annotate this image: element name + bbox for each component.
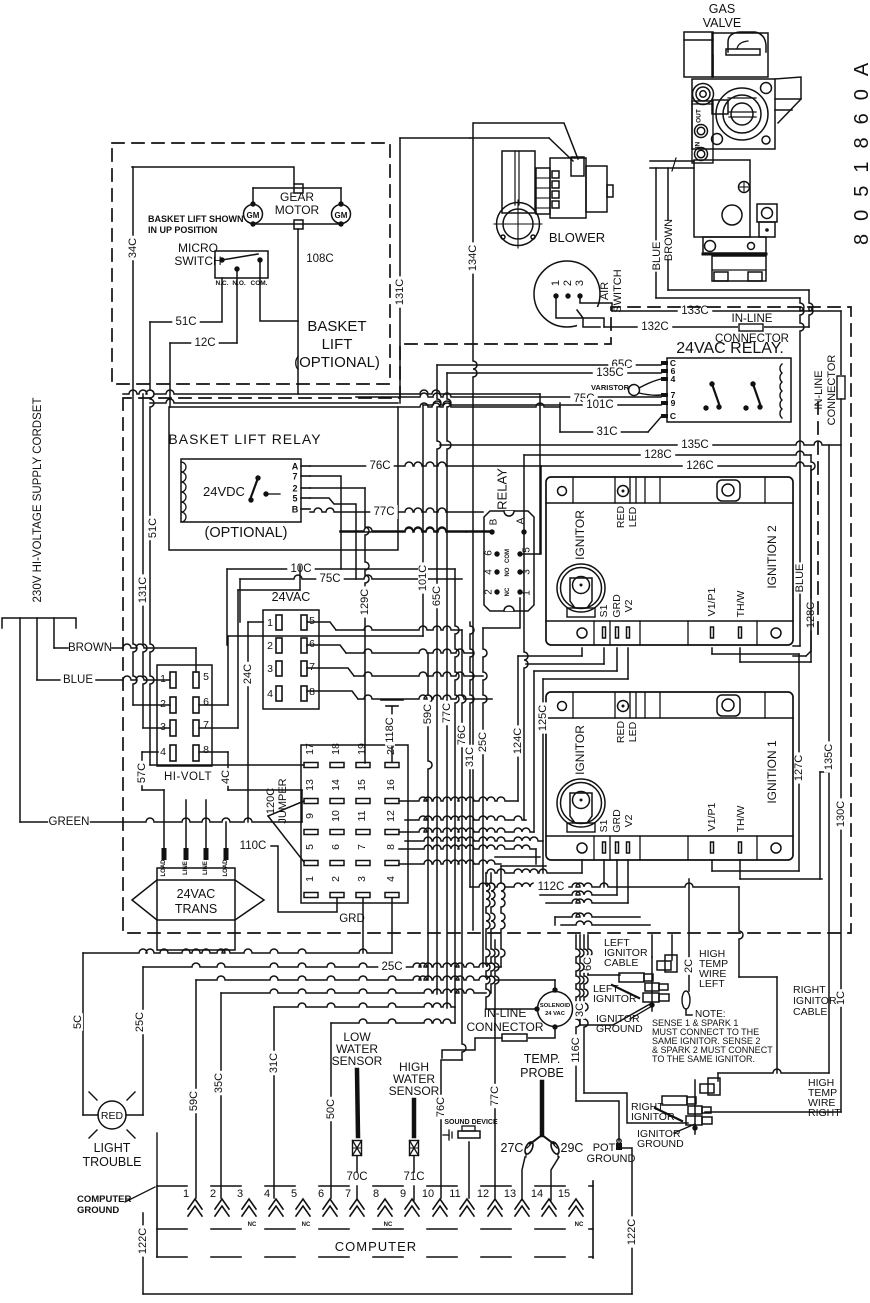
svg-text:7: 7 (345, 1188, 351, 1200)
24VAC transformer pins (162, 848, 167, 860)
wire from 24VAC pin 5 (307, 622, 336, 630)
svg-text:SOUND DEVICE: SOUND DEVICE (444, 1119, 498, 1126)
svg-text:8: 8 (385, 844, 397, 850)
rows to lower left (555, 913, 640, 917)
svg-text:1: 1 (183, 1188, 189, 1200)
svg-text:1: 1 (160, 673, 166, 685)
svg-text:1: 1 (522, 590, 533, 596)
svg-text:5: 5 (203, 671, 209, 683)
svg-text:2: 2 (267, 640, 273, 652)
svg-text:RED: RED (101, 1110, 124, 1122)
svg-text:LED: LED (627, 506, 639, 527)
blower motor (536, 168, 550, 214)
wire 4C from hi-volt pin 8 (199, 751, 228, 753)
svg-text:12: 12 (477, 1188, 489, 1200)
svg-text:CABLE: CABLE (604, 957, 638, 969)
svg-text:LOAD: LOAD (161, 859, 167, 877)
hi-volt connector box (157, 665, 212, 766)
svg-text:130C: 130C (835, 801, 847, 827)
svg-text:51C: 51C (175, 316, 196, 328)
svg-text:18: 18 (330, 743, 342, 755)
svg-text:2C: 2C (683, 959, 695, 973)
24VAC relay box (667, 358, 791, 422)
svg-text:71C: 71C (403, 1171, 424, 1183)
wire 128C drop to ignition 2 TH/W (811, 455, 815, 662)
svg-text:AIR: AIR (599, 282, 611, 300)
20-pin connector box (301, 745, 408, 903)
svg-text:7: 7 (203, 719, 209, 731)
wire 76C to pin 10 (441, 1060, 462, 1198)
svg-text:GAS: GAS (709, 2, 735, 16)
svg-text:8: 8 (309, 686, 315, 698)
svg-text:V1/P1: V1/P1 (706, 588, 718, 617)
gear motor feed wire (132, 167, 294, 184)
wire 135C row (440, 441, 841, 445)
svg-text:IN-LINE: IN-LINE (484, 1006, 527, 1020)
basket lift relay inner box (181, 459, 301, 522)
svg-text:25C: 25C (381, 961, 402, 973)
svg-text:9: 9 (400, 1188, 406, 1200)
svg-text:BLUE: BLUE (63, 674, 93, 686)
svg-text:11: 11 (449, 1188, 460, 1200)
svg-text:NC: NC (505, 587, 511, 596)
wire relay A to 128C (523, 455, 525, 532)
dashed boundary inner right (817, 402, 819, 640)
svg-text:4: 4 (160, 746, 166, 758)
svg-text:4: 4 (484, 569, 495, 575)
svg-text:25C: 25C (477, 732, 489, 752)
wire 134C (473, 123, 477, 930)
left ignitor cable wires (651, 935, 653, 957)
svg-text:IGNITOR: IGNITOR (593, 993, 637, 1005)
svg-text:OUT: OUT (696, 109, 703, 123)
wire 5C label (73, 1013, 83, 1031)
wire 57C from hi-volt pin 4 (142, 751, 158, 753)
svg-text:7: 7 (356, 844, 368, 850)
ignition module IGNITION 2 ignitor (557, 564, 605, 612)
svg-text:135C: 135C (681, 439, 709, 451)
svg-text:2: 2 (562, 280, 574, 286)
svg-text:13: 13 (504, 1188, 516, 1200)
svg-text:TEMP.: TEMP. (524, 1052, 561, 1066)
wire 130C / 1C vertical (840, 399, 842, 1112)
wire from pin 4 (391, 898, 393, 953)
ignition module IGNITION 2 box (546, 477, 793, 645)
wire 31C (bundle) (470, 622, 474, 887)
svg-text:59C: 59C (422, 704, 434, 724)
wires below ignition 1 (581, 860, 583, 873)
svg-text:GROUND: GROUND (587, 1153, 636, 1165)
wire row to relay connector B (340, 527, 492, 531)
svg-text:108C: 108C (306, 253, 334, 265)
ignition module IGNITION 1 top strip (572, 692, 574, 718)
svg-text:S1: S1 (598, 604, 610, 617)
svg-text:4C: 4C (220, 770, 232, 784)
svg-text:24C: 24C (242, 664, 254, 684)
left ignitor assembly (651, 957, 653, 1011)
wire 12C from micro switch NO (236, 271, 238, 343)
svg-text:124C: 124C (512, 728, 524, 754)
svg-text:76C: 76C (369, 460, 390, 472)
svg-text:IGNITOR: IGNITOR (573, 725, 587, 775)
wire relay B row (466, 531, 492, 533)
wire row 31C (274, 1003, 455, 1007)
wires left of ignition boxes (524, 532, 528, 820)
svg-text:3: 3 (574, 280, 586, 286)
24VAC transformer hexagon (132, 880, 264, 920)
svg-text:5: 5 (292, 494, 297, 504)
svg-text:35C: 35C (213, 1073, 225, 1093)
24VAC transformer outer rect (157, 868, 235, 950)
svg-text:GRD: GRD (339, 913, 365, 925)
wire 124C (517, 656, 519, 801)
wire 112C drop (455, 569, 459, 1023)
svg-text:LED: LED (627, 721, 639, 742)
wire 59C (bundle) (428, 653, 432, 980)
svg-text:230V HI-VOLTAGE SUPPLY CORDSET: 230V HI-VOLTAGE SUPPLY CORDSET (32, 398, 44, 603)
svg-text:SENSOR: SENSOR (332, 1054, 383, 1068)
svg-text:B: B (489, 518, 500, 525)
svg-text:V2: V2 (623, 814, 635, 827)
svg-text:77C: 77C (441, 703, 453, 723)
svg-text:3: 3 (267, 663, 273, 675)
wire 25C (bundle) (483, 598, 520, 628)
gas valve side face (775, 77, 801, 99)
svg-text:NC: NC (384, 1222, 393, 1228)
svg-text:14: 14 (330, 779, 342, 791)
gas valve body (684, 32, 713, 77)
svg-text:132C: 132C (641, 321, 669, 333)
svg-text:6: 6 (203, 696, 209, 708)
svg-text:29C: 29C (561, 1141, 584, 1155)
svg-text:S1: S1 (598, 819, 610, 832)
svg-text:8: 8 (373, 1188, 379, 1200)
svg-text:9: 9 (671, 398, 676, 408)
svg-text:RED: RED (615, 505, 627, 528)
wire 128C row (524, 451, 811, 455)
wire from solenoid left (486, 1008, 537, 1010)
wire 112C (470, 883, 739, 887)
wire row 25C (143, 963, 501, 967)
svg-text:(OPTIONAL): (OPTIONAL) (205, 525, 288, 541)
svg-text:GROUND: GROUND (637, 1138, 684, 1150)
svg-text:15: 15 (356, 779, 368, 791)
svg-text:134C: 134C (467, 245, 479, 271)
wires right of 20-pin (399, 797, 518, 801)
svg-text:C: C (670, 411, 676, 421)
svg-text:MOTOR: MOTOR (275, 203, 320, 217)
svg-text:VALVE: VALVE (703, 16, 741, 30)
wire 125C (542, 679, 544, 873)
gas valve face screws (761, 83, 772, 94)
computer box (156, 1186, 158, 1257)
svg-text:GM: GM (335, 211, 348, 220)
svg-text:24 VAC: 24 VAC (545, 1011, 566, 1017)
wire from air switch pin 1 (132C) (556, 296, 604, 327)
svg-text:BLUE: BLUE (651, 242, 663, 271)
blower feed wires (474, 123, 578, 159)
svg-text:BASKET LIFT RELAY: BASKET LIFT RELAY (168, 431, 321, 447)
wire 110C (240, 846, 337, 912)
20-pin connector pins (304, 763, 318, 768)
gas valve lower actuator (694, 160, 750, 237)
wire row 5C (83, 949, 392, 953)
basket lift relay contacts (255, 475, 260, 480)
svg-text:TRANS: TRANS (175, 902, 217, 916)
svg-text:7: 7 (292, 472, 297, 482)
wire BLUE from gas valve (655, 168, 657, 298)
svg-text:NO: NO (505, 567, 511, 576)
svg-text:2: 2 (292, 484, 297, 494)
svg-text:135C: 135C (823, 744, 835, 770)
svg-text:75C: 75C (319, 573, 340, 585)
ignition module IGNITION 2 top strip (572, 477, 574, 503)
wire 6C (588, 935, 592, 975)
svg-text:50C: 50C (325, 1099, 337, 1119)
wire row y407 (398, 403, 560, 407)
right ignitor assembly (694, 1080, 696, 1134)
svg-text:V1/P1: V1/P1 (706, 803, 718, 832)
wire BROWN vertical to 132C (809, 290, 813, 327)
wire from 24VAC pin 7 (307, 668, 354, 676)
svg-text:CONNECTOR: CONNECTOR (466, 1020, 543, 1034)
svg-text:4: 4 (671, 374, 676, 384)
svg-text:12C: 12C (194, 337, 215, 349)
wire 2C (688, 879, 690, 991)
svg-text:101C: 101C (417, 565, 429, 591)
svg-text:PROBE: PROBE (520, 1066, 564, 1080)
svg-text:125C: 125C (537, 705, 549, 731)
svg-text:17: 17 (304, 743, 316, 755)
svg-text:10: 10 (422, 1188, 434, 1200)
ignition module IGNITION 2 bottom strip (593, 621, 595, 645)
24VAC connector pins (276, 615, 282, 630)
svg-text:116C: 116C (570, 1037, 582, 1063)
svg-text:BASKET: BASKET (307, 318, 366, 335)
svg-text:135C: 135C (596, 367, 624, 379)
svg-text:16: 16 (385, 779, 397, 791)
svg-text:NC: NC (302, 1222, 311, 1228)
svg-text:SENSOR: SENSOR (389, 1084, 440, 1098)
wire from relay pin 5 to 75C (310, 498, 356, 579)
svg-text:B: B (292, 505, 299, 515)
svg-text:10: 10 (330, 810, 342, 822)
svg-text:59C: 59C (188, 1091, 200, 1111)
svg-text:IN UP POSITION: IN UP POSITION (148, 225, 217, 235)
svg-text:27C: 27C (501, 1141, 524, 1155)
wire row 35C (221, 989, 486, 993)
wire 132C (604, 326, 809, 328)
svg-text:8: 8 (203, 744, 209, 756)
svg-text:5C: 5C (72, 1015, 84, 1029)
gas valve OUT port (692, 101, 713, 163)
svg-text:31C: 31C (268, 1053, 280, 1073)
wire 133C drop to in-line connector right (840, 311, 842, 376)
wire 31C to relay pin C bottom (560, 431, 648, 433)
svg-text:BLOWER: BLOWER (549, 230, 605, 245)
svg-text:3: 3 (160, 721, 166, 733)
hi-volt pins (170, 672, 176, 688)
wire 133C (612, 310, 841, 312)
cordset bracket (2, 618, 76, 628)
wire 24C (247, 622, 249, 822)
wire from relay pin 7 to 10C (310, 476, 341, 569)
svg-text:76C: 76C (456, 725, 468, 745)
air switch body (534, 261, 600, 327)
svg-text:BASKET LIFT SHOWN: BASKET LIFT SHOWN (148, 214, 244, 224)
svg-text:128C: 128C (644, 449, 672, 461)
svg-text:127C: 127C (793, 755, 805, 781)
svg-text:V2: V2 (623, 599, 635, 612)
svg-text:9: 9 (304, 813, 316, 819)
svg-text:A: A (292, 462, 299, 472)
24VAC relay coil (780, 364, 782, 418)
svg-text:RIGHT: RIGHT (808, 1107, 841, 1119)
24VAC relay pin stubs (661, 361, 668, 365)
svg-text:(OPTIONAL): (OPTIONAL) (294, 354, 380, 371)
wire 135C to relay pin 6 (447, 372, 661, 374)
ignition 1 V1/P1 wire (711, 860, 713, 871)
gas valve pilot knob (693, 84, 714, 105)
ignition 1 TH/W wire (739, 860, 741, 879)
wire 131C (basket lift right) (399, 138, 401, 403)
svg-text:24VAC: 24VAC (272, 590, 311, 604)
wires into transformer (163, 790, 165, 848)
wire BROWN from gas valve (667, 168, 669, 290)
svg-text:2: 2 (330, 876, 342, 882)
wire row 59C to solenoid (196, 976, 555, 980)
wire 65C to relay pin C (437, 364, 661, 366)
wire to hi-volt pin 6 (101C) (199, 704, 228, 706)
basket lift relay outer box (169, 407, 398, 550)
svg-text:6: 6 (484, 550, 495, 556)
wire GREEN (20, 821, 50, 823)
svg-text:3: 3 (356, 876, 368, 882)
solenoid 24VAC (538, 992, 573, 1027)
svg-text:65C: 65C (431, 586, 443, 606)
svg-text:5: 5 (309, 615, 315, 627)
svg-text:6: 6 (318, 1188, 324, 1200)
wire to pin 17 row (150, 764, 304, 766)
relay connector outline (484, 511, 534, 611)
svg-text:TH/W: TH/W (735, 591, 747, 618)
svg-text:1: 1 (550, 280, 562, 286)
wire 135C drop (right) (828, 445, 830, 1073)
wire BLUE vertical to ignition 2 (800, 298, 804, 646)
wire 25C label left (135, 1010, 145, 1034)
wire 126C row (541, 462, 811, 466)
wire 3C (580, 935, 584, 1025)
svg-text:GROUND: GROUND (77, 1205, 119, 1216)
wire row y394 (123, 390, 540, 394)
svg-text:11: 11 (356, 810, 368, 821)
svg-text:NC: NC (248, 1222, 257, 1228)
wire 77C to pin 12 (495, 940, 499, 1198)
svg-text:COM: COM (505, 549, 511, 563)
wire row 50C (331, 1019, 455, 1023)
24VAC relay contacts (709, 381, 714, 386)
svg-text:131C: 131C (137, 577, 149, 603)
svg-text:VARISTOR: VARISTOR (591, 383, 630, 392)
wires below ignition 2 (581, 648, 583, 656)
svg-text:JUMPER: JUMPER (277, 778, 289, 823)
svg-text:1: 1 (267, 617, 273, 629)
svg-text:8051860A: 8051860A (851, 50, 870, 245)
wire to right ignitor ground (584, 935, 588, 1093)
svg-text:10C: 10C (290, 563, 311, 575)
svg-text:12: 12 (385, 810, 397, 822)
svg-text:15: 15 (558, 1188, 570, 1200)
svg-text:IGNITION 2: IGNITION 2 (765, 525, 779, 589)
svg-text:4: 4 (267, 688, 273, 700)
wire 127C vertical (798, 654, 800, 871)
wire 77C from relay pin B (310, 508, 483, 512)
wire 131C to hi-volt pin 3 (143, 394, 147, 728)
svg-text:3: 3 (522, 569, 533, 575)
svg-text:A: A (516, 517, 527, 524)
svg-text:MICRO: MICRO (178, 241, 218, 255)
wire 126C drop to ignition 1 TH/W (819, 772, 821, 879)
svg-text:BROWN: BROWN (68, 642, 112, 654)
wire 128C label (806, 599, 816, 630)
svg-text:RELAY: RELAY (495, 468, 510, 510)
svg-text:77C: 77C (489, 1086, 501, 1106)
ignition 2 V1/P1 wire (711, 648, 713, 654)
svg-text:TO THE SAME IGNITOR.: TO THE SAME IGNITOR. (652, 1054, 755, 1064)
svg-text:5: 5 (522, 547, 533, 553)
wire BLUE label ignition 2 (795, 562, 805, 593)
ignition module IGNITION 1 bottom strip (593, 836, 595, 860)
wire from relay pin 2 to 129C (310, 487, 365, 489)
svg-text:IGNITION 1: IGNITION 1 (765, 740, 779, 804)
svg-text:6: 6 (330, 844, 342, 850)
svg-text:GREEN: GREEN (49, 816, 90, 828)
wire 122C right (627, 1216, 637, 1247)
svg-text:IGNITOR: IGNITOR (631, 1111, 675, 1123)
air switch contacts (553, 293, 558, 298)
wire 75C to relay pin 7 (356, 393, 661, 397)
chassis dashed boundary (123, 307, 851, 933)
wire from solenoid bottom (527, 1027, 555, 1038)
basket lift dashed enclosure (112, 143, 390, 384)
svg-text:TROUBLE: TROUBLE (82, 1155, 141, 1169)
wire relay 5 to 126C (520, 466, 541, 554)
svg-text:3C: 3C (574, 1003, 586, 1017)
svg-text:7: 7 (309, 661, 315, 673)
blower flange (497, 203, 540, 246)
wire 101C to relay pin 9 (423, 401, 661, 405)
svg-text:LIGHT: LIGHT (94, 1141, 131, 1155)
svg-text:57C: 57C (136, 763, 148, 783)
trouble light (98, 1101, 126, 1129)
svg-text:GEAR: GEAR (280, 190, 314, 204)
svg-text:118C: 118C (384, 717, 396, 743)
svg-text:LIFT: LIFT (322, 336, 353, 353)
svg-text:LINE: LINE (183, 861, 189, 875)
svg-text:76C: 76C (435, 1097, 447, 1117)
svg-text:14: 14 (531, 1188, 543, 1200)
svg-text:122C: 122C (626, 1219, 638, 1245)
wire 75C row (240, 575, 462, 579)
ignition module IGNITION 1 box (546, 692, 793, 860)
svg-text:N.O.: N.O. (232, 280, 246, 287)
svg-text:LEFT: LEFT (699, 978, 725, 990)
wires 491 501 verticals (491, 873, 495, 993)
wire BLUE (37, 679, 60, 681)
svg-text:SOLENOID: SOLENOID (540, 1003, 570, 1009)
wire 122C left (142, 1213, 144, 1294)
svg-text:31C: 31C (464, 747, 476, 767)
